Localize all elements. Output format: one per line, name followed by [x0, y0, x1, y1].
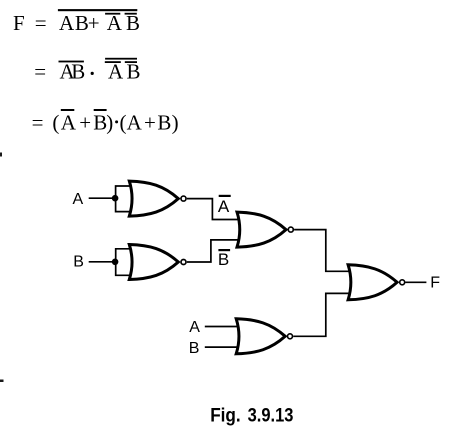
svg-text:B: B — [71, 59, 85, 83]
svg-text:(: ( — [120, 110, 127, 134]
svg-text:+: + — [88, 11, 100, 35]
svg-text:A: A — [127, 110, 143, 134]
svg-text:B: B — [157, 110, 171, 134]
svg-text:A: A — [73, 191, 84, 208]
svg-text:(: ( — [52, 110, 59, 134]
svg-text:B: B — [126, 11, 140, 35]
svg-text:A: A — [189, 319, 200, 336]
svg-text:A: A — [218, 197, 230, 216]
svg-text:A: A — [107, 11, 123, 35]
svg-text:B: B — [93, 110, 107, 134]
svg-text:=: = — [35, 11, 47, 35]
svg-text:B: B — [189, 340, 200, 357]
svg-text:A: A — [61, 110, 77, 134]
svg-text:B: B — [73, 254, 84, 271]
svg-text:=: = — [34, 59, 46, 83]
svg-text:F: F — [13, 11, 25, 35]
svg-text:3.9.13: 3.9.13 — [248, 405, 294, 426]
svg-text:B: B — [218, 250, 229, 269]
svg-text:=: = — [32, 110, 44, 134]
svg-text:): ) — [106, 110, 113, 134]
svg-text:+: + — [79, 110, 91, 134]
svg-text:Fig.: Fig. — [210, 405, 241, 426]
svg-text:+: + — [144, 110, 156, 134]
svg-text:F: F — [430, 275, 440, 292]
svg-text:): ) — [172, 110, 179, 134]
svg-text:A: A — [59, 11, 75, 35]
